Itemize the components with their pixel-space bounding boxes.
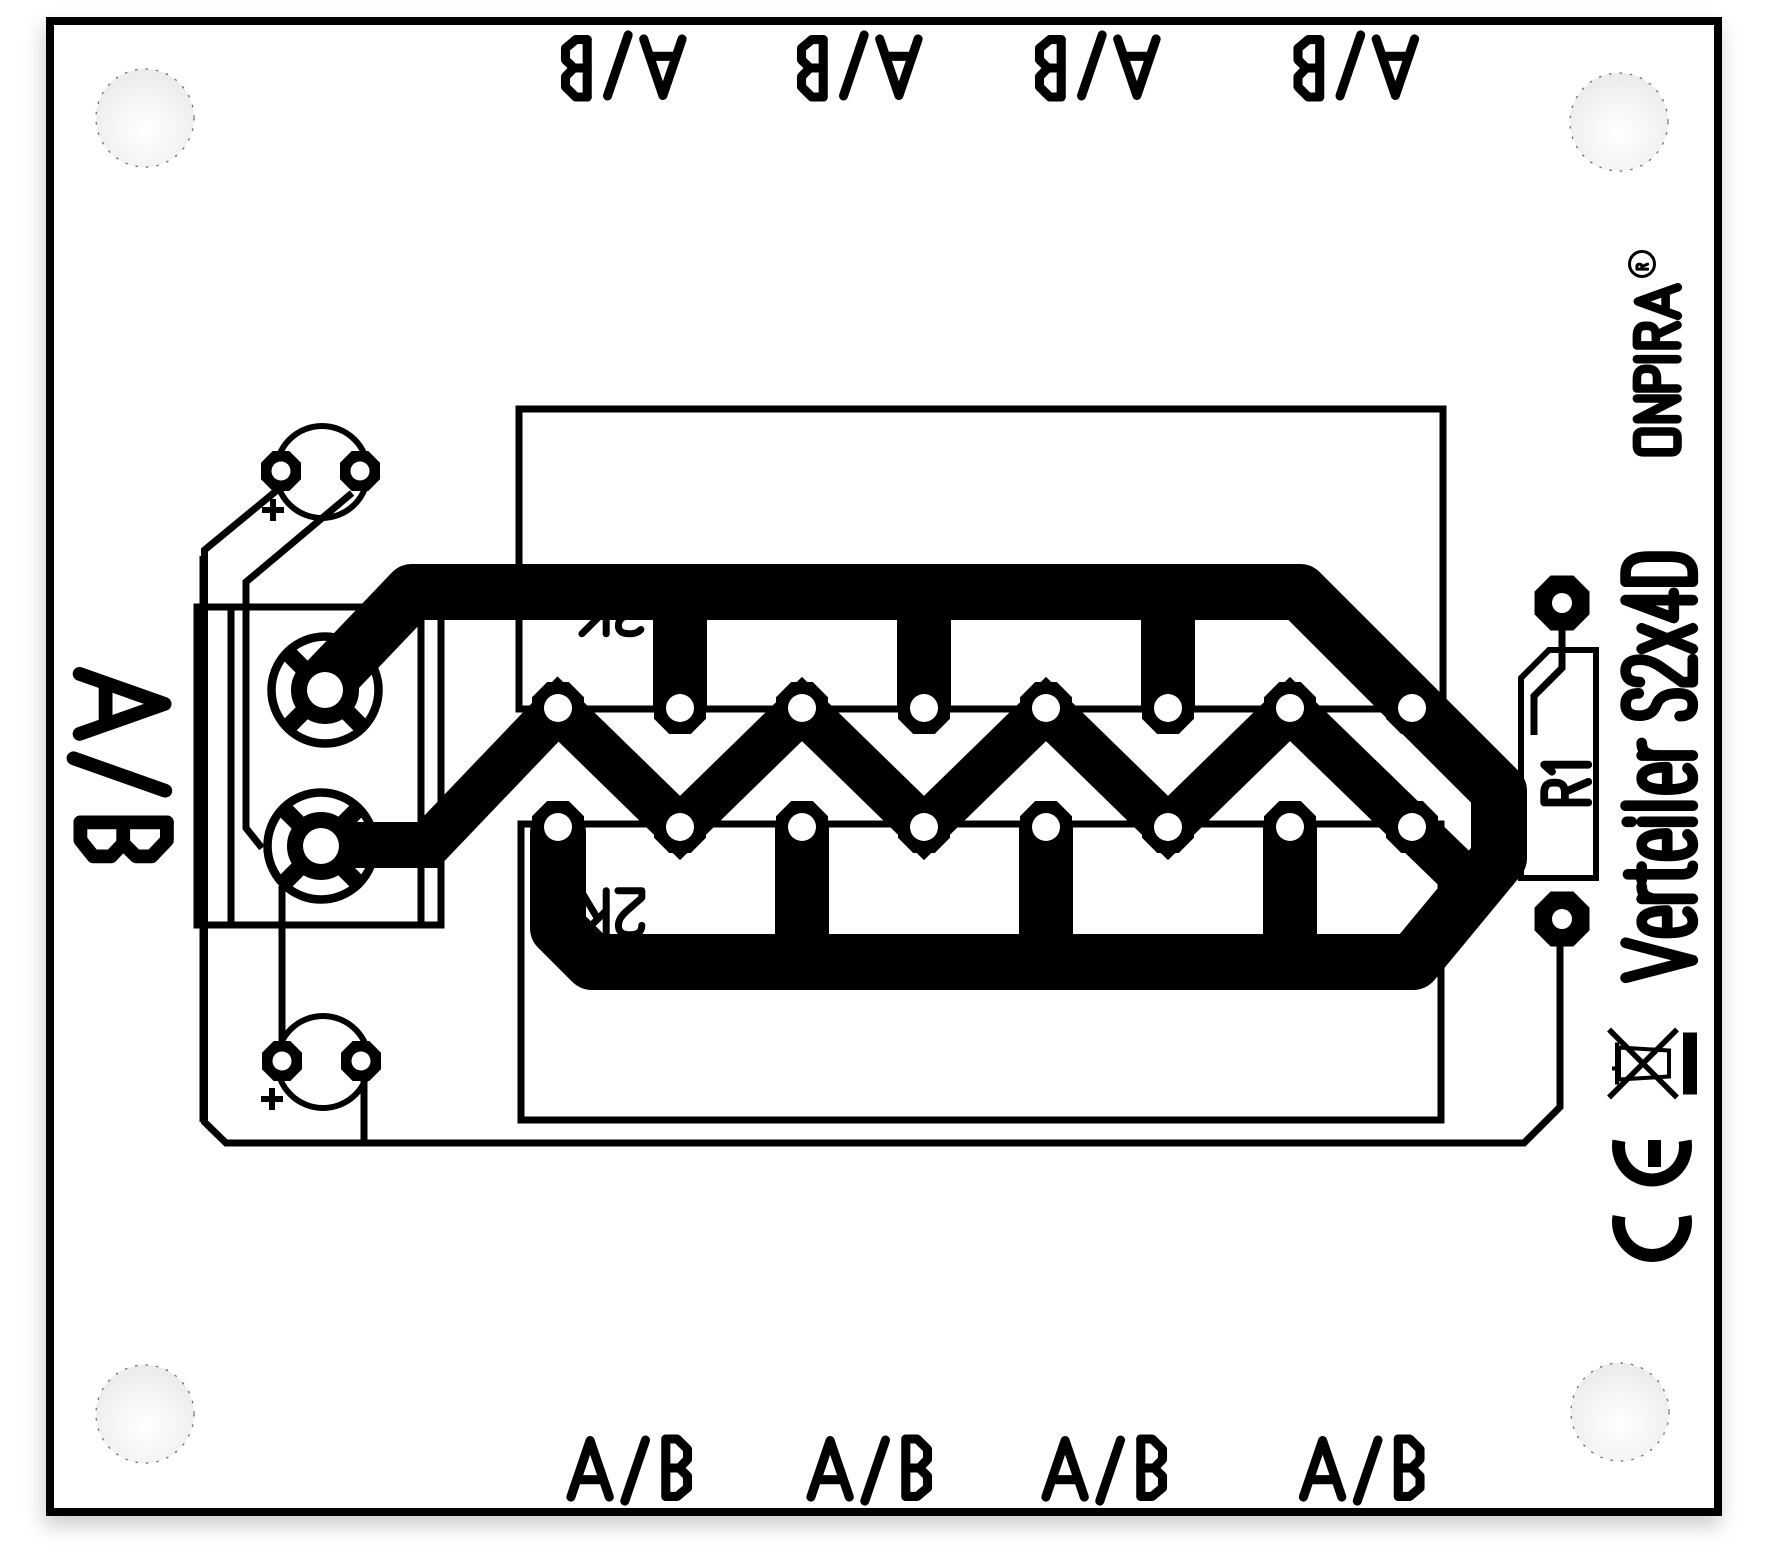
pad: R1 top	[1535, 576, 1590, 631]
pad: connector pin bottom row 2	[654, 801, 706, 853]
CE mark letter E (rotated)	[1618, 1141, 1685, 1180]
label A/B bottom at x=1105	[1046, 1441, 1084, 1497]
K1 inner line right	[418, 607, 425, 925]
label A/B top (upside down) at x=859	[880, 39, 918, 95]
pad: R1 bottom	[1535, 892, 1590, 947]
pad: connector pin bottom row 4	[898, 801, 950, 853]
wire: pad B to speaker LS2 left pad	[279, 886, 286, 1045]
speaker terminal LS1 (top left)	[276, 426, 368, 518]
connector K1 terminal block outline	[197, 607, 441, 925]
trace stub: bottom bus to pad at x=1290	[1263, 825, 1317, 962]
pad B (terminal 2, thermal relief)	[268, 793, 375, 900]
pad: connector pin bottom row 5	[1020, 801, 1072, 853]
pad: connector pin bottom row 8	[1386, 801, 1438, 853]
trace stub: bottom bus to pad at x=1046	[1019, 825, 1073, 962]
pad A (terminal 1, thermal relief)	[272, 637, 379, 744]
pad: connector pin top row 3	[776, 682, 828, 734]
wire: R1 top pad to hook	[1534, 625, 1562, 735]
trace: zigzag from pad B through pad rows	[321, 709, 1462, 876]
CE mark letter C (rotated)	[1618, 1216, 1685, 1255]
plus sign LS2	[261, 1088, 283, 1110]
label A/B bottom at x=630	[571, 1441, 609, 1497]
trace stub: top bus to pad at x=924	[897, 592, 951, 710]
pad: connector pin top row 5	[1020, 682, 1072, 734]
label K3 (upside down, mostly hidden)	[618, 590, 641, 634]
label K2 (upside down)	[618, 891, 642, 935]
hole of pad A	[307, 672, 343, 708]
label R1 (rotated -90)	[1544, 783, 1588, 803]
pad: connector pin top row 7	[1264, 682, 1316, 734]
pad: connector pin bottom row 3	[776, 801, 828, 853]
connector K2 outline	[521, 824, 1441, 1120]
pad: connector pin bottom row 1	[532, 801, 584, 853]
trace: top bus from pad A to right hook to bottom bus	[325, 592, 1499, 962]
trace stub: top bus to pad at x=1168	[1141, 592, 1195, 710]
pad: connector pin bottom row 7	[1264, 801, 1316, 853]
connector K3 outline	[519, 409, 1443, 709]
pad: connector pin top row 8	[1386, 682, 1438, 734]
pad: connector pin top row 4	[898, 682, 950, 734]
wire: speaker LS1 left pad to bottom rail	[205, 487, 1561, 1143]
wire: speaker LS2 right pad down to bottom rail	[361, 1080, 368, 1143]
wire: filler along K1 left edge	[200, 556, 208, 1122]
hole of pad B	[303, 828, 339, 864]
pad: connector pin top row 2	[654, 682, 706, 734]
label A/B top (upside down) at x=623	[644, 39, 682, 95]
K1 inner line left	[228, 607, 235, 925]
label registered trademark	[1630, 252, 1655, 277]
label Verteiler S2x4D (rotated -90)	[1626, 943, 1693, 978]
mounting hole top-left	[96, 69, 194, 167]
mounting hole bottom-left	[96, 1365, 194, 1463]
label A/B bottom at x=870	[811, 1441, 849, 1497]
label A/B top (upside down) at x=1355	[1376, 39, 1414, 95]
mounting hole top-right	[1570, 73, 1668, 171]
label ONPIRA (rotated -90)	[1637, 432, 1678, 453]
trace stub: bottom bus to pad at x=802	[775, 825, 829, 962]
label A/B bottom at x=1362	[1303, 1441, 1341, 1497]
pad: connector pin top row 1	[532, 682, 584, 734]
pad: connector pin bottom row 6	[1142, 801, 1194, 853]
trace stub: top bus to pad at x=680	[653, 592, 707, 710]
WEEE crossed-out bin symbol (rotated)	[1609, 1030, 1697, 1098]
mounting hole bottom-right	[1571, 1363, 1669, 1461]
speaker terminal LS2 (bottom left)	[277, 1016, 369, 1108]
label A/B left (rotated 90)	[80, 674, 165, 734]
pad: connector pin top row 6	[1142, 682, 1194, 734]
wire: speaker LS1 right pad to pad B	[246, 493, 352, 848]
plus sign LS1	[262, 499, 284, 521]
resistor R1 outline	[1521, 650, 1596, 878]
label A/B top (upside down) at x=1097	[1118, 39, 1156, 95]
